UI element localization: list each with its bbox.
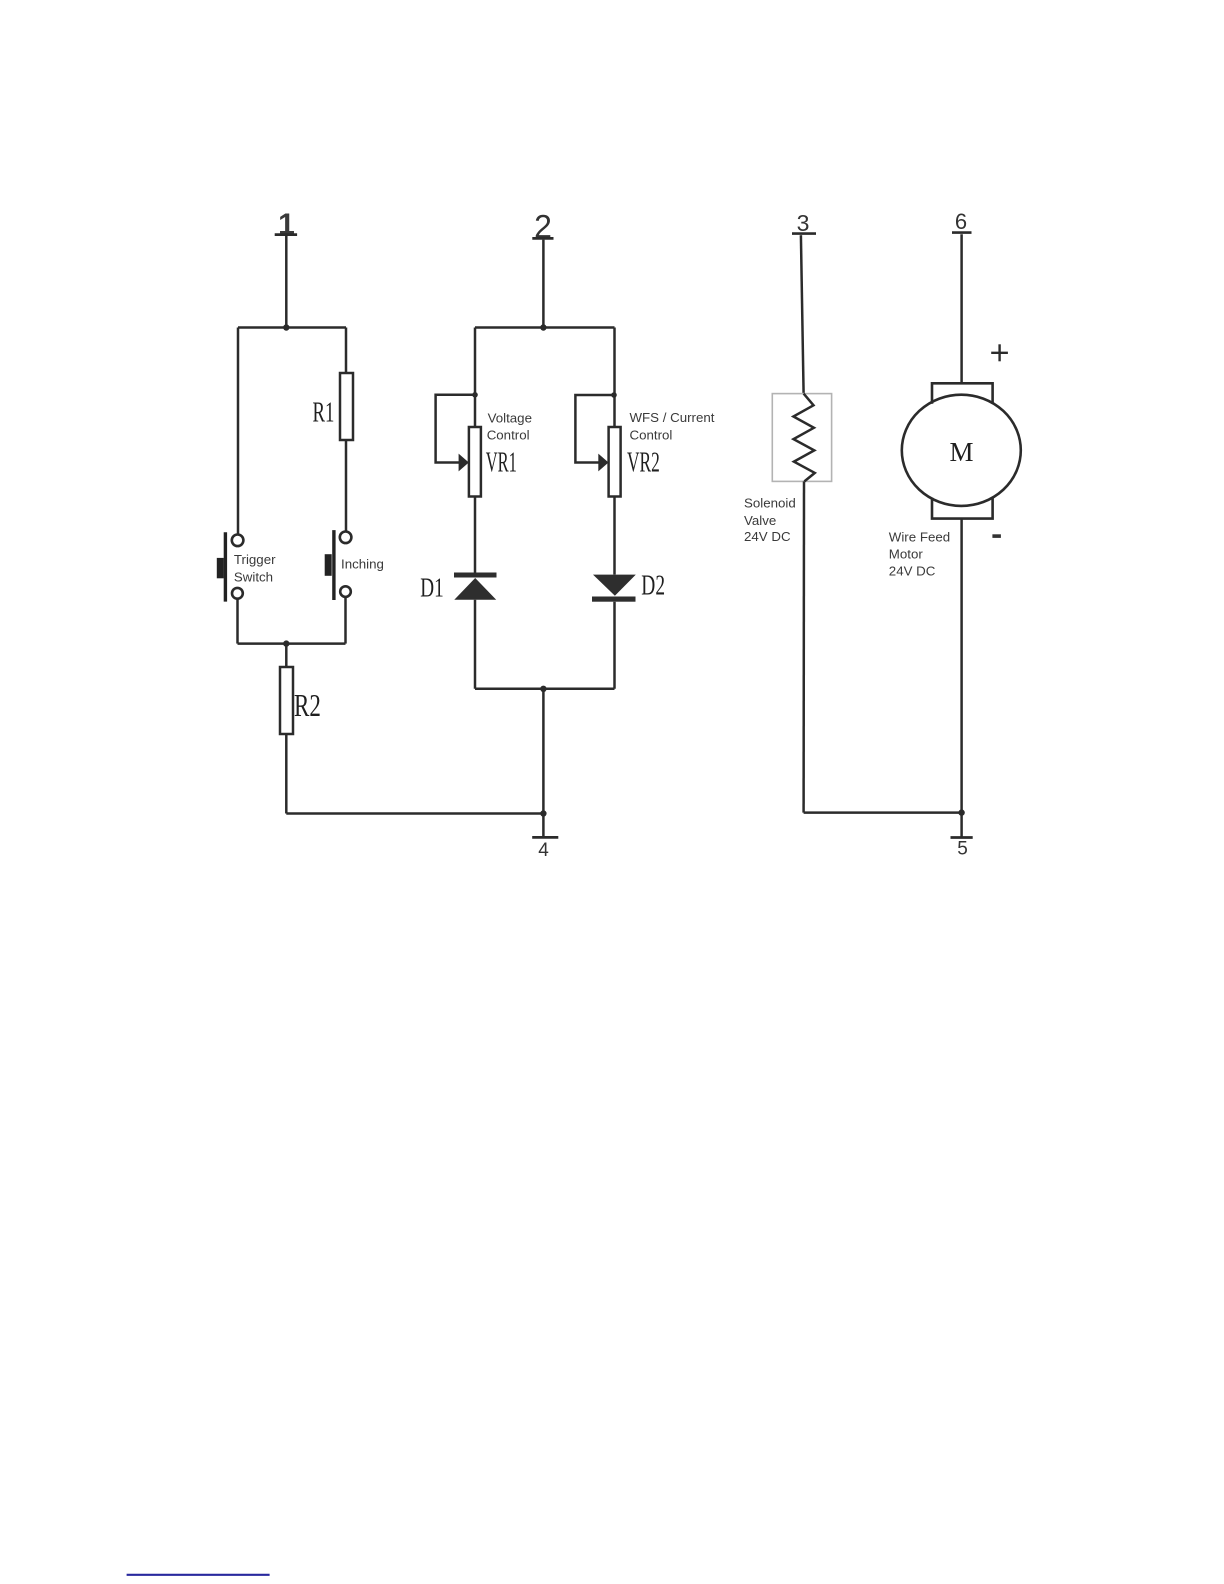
- junction node 1 to left loop: [283, 324, 289, 330]
- motor M1 body: [902, 395, 1021, 506]
- switch: Inching: [325, 530, 352, 600]
- wire bottom rail left: [286, 812, 543, 815]
- wire middle loop bottom: [475, 688, 615, 691]
- svg-text:24V DC: 24V DC: [889, 563, 936, 578]
- wire VR1 to D1: [474, 497, 477, 573]
- switch: Trigger Switch: [217, 532, 244, 601]
- motor M1 bottom brush block: [932, 498, 993, 519]
- wire inching switch to loop bottom: [344, 597, 347, 644]
- wire node 3 lead: [801, 235, 804, 393]
- wire node 6 lead: [960, 234, 963, 383]
- wire node 1 lead: [285, 236, 288, 328]
- wire middle loop right vertical upper: [613, 328, 616, 428]
- wire D2 to middle loop bottom: [613, 602, 616, 689]
- svg-text:24V DC: 24V DC: [744, 529, 791, 544]
- label WFS / Current Control: [630, 410, 715, 442]
- junction bottom rail node 4: [540, 810, 546, 816]
- label Voltage Control: [487, 410, 532, 442]
- svg-text:R2: R2: [294, 688, 321, 724]
- wire R1 to inching switch: [345, 440, 348, 531]
- wire middle loop left vertical upper: [474, 328, 477, 428]
- svg-text:D2: D2: [641, 570, 665, 602]
- wire left loop bottom: [238, 642, 346, 645]
- svg-text:Wire Feed: Wire Feed: [889, 529, 950, 544]
- label Wire Feed Motor 24V DC: [889, 529, 950, 578]
- wire loop bottom to R2: [285, 644, 288, 667]
- node 6: [952, 209, 972, 234]
- solenoid coil zigzag: [793, 394, 814, 482]
- wire node 2 lead: [542, 240, 545, 328]
- svg-text:Control: Control: [487, 427, 530, 442]
- node 1: [275, 208, 297, 241]
- wire motor to bottom rail: [960, 519, 963, 813]
- junction middle loop bottom: [540, 686, 546, 692]
- svg-text:M: M: [949, 437, 973, 467]
- wire left loop left vertical: [237, 328, 240, 535]
- wire D1 to middle loop bottom: [474, 600, 477, 689]
- minus polarity mark: [992, 534, 1001, 538]
- resistor R1: [340, 373, 353, 440]
- junction node 2 to middle loop: [540, 324, 546, 330]
- svg-text:R1: R1: [313, 398, 335, 429]
- node 4: [532, 814, 558, 862]
- VR2 wiper arrow: [598, 454, 608, 472]
- svg-text:D1: D1: [420, 573, 443, 603]
- wire left loop right vertical upper: [345, 328, 348, 374]
- potentiometer VR2: [609, 427, 621, 497]
- footer link underline: [127, 1574, 270, 1576]
- node 5: [951, 813, 973, 860]
- svg-text:Trigger: Trigger: [234, 552, 276, 567]
- label Solenoid Valve 24V DC: [744, 496, 796, 544]
- wire VR2 to D2: [613, 497, 616, 575]
- wire middle loop to bottom rail: [542, 689, 545, 814]
- label Trigger Switch: [234, 552, 276, 584]
- wire trigger switch to loop bottom: [236, 599, 239, 644]
- svg-text:WFS / Current: WFS / Current: [630, 410, 715, 425]
- solenoid valve box: [772, 394, 831, 482]
- svg-text:Switch: Switch: [234, 569, 273, 584]
- svg-text:VR2: VR2: [627, 447, 660, 479]
- wire VR2 wiper loop: [575, 395, 614, 463]
- wire bottom rail right: [804, 811, 962, 814]
- node 2: [532, 209, 553, 245]
- wire VR1 wiper loop: [436, 395, 475, 463]
- diode D1: [454, 573, 497, 600]
- junction left loop bottom: [283, 640, 289, 646]
- svg-text:Solenoid: Solenoid: [744, 496, 796, 511]
- motor M1 top brush block: [932, 383, 993, 404]
- svg-text:5: 5: [957, 839, 968, 860]
- junction bottom rail node 5: [958, 809, 964, 815]
- junction VR1 wiper: [472, 392, 478, 398]
- node 3: [792, 210, 816, 236]
- plus polarity mark: [991, 344, 1008, 361]
- diode D2: [592, 575, 636, 602]
- wire middle loop top: [475, 326, 615, 329]
- svg-text:Motor: Motor: [889, 546, 924, 561]
- svg-text:Voltage: Voltage: [488, 410, 532, 425]
- resistor R2: [280, 667, 293, 734]
- junction VR2 wiper: [611, 392, 617, 398]
- svg-text:4: 4: [538, 840, 549, 861]
- svg-text:VR1: VR1: [486, 447, 517, 479]
- svg-text:Valve: Valve: [744, 513, 776, 528]
- wire left loop top: [238, 326, 346, 329]
- wire solenoid to bottom rail: [802, 481, 805, 812]
- potentiometer VR1: [469, 427, 481, 497]
- svg-text:3: 3: [797, 210, 810, 236]
- svg-text:Inching: Inching: [341, 557, 384, 572]
- svg-text:Control: Control: [630, 427, 673, 442]
- svg-text:6: 6: [955, 209, 967, 234]
- VR1 wiper arrow: [459, 454, 469, 472]
- wire R2 to bottom rail: [285, 734, 288, 814]
